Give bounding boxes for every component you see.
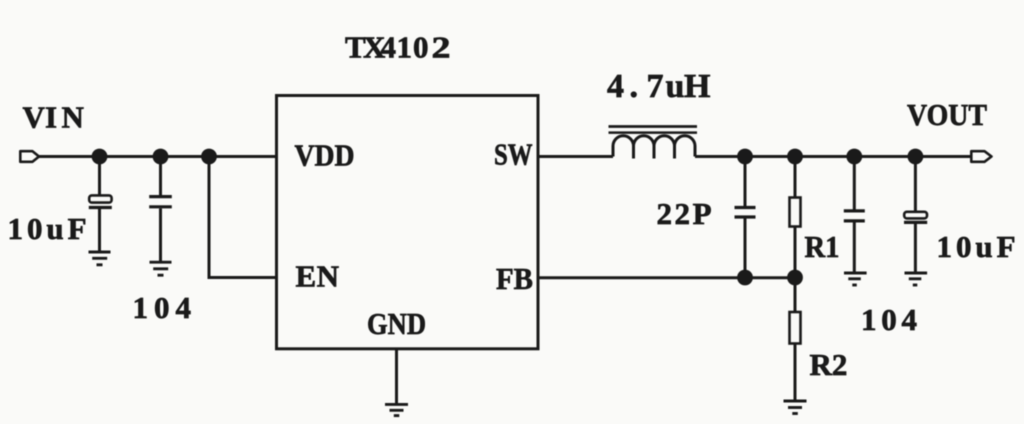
svg-text:VOUT: VOUT [907,97,987,132]
svg-text:104: 104 [133,290,192,325]
svg-text:EN: EN [296,259,340,294]
svg-text:VDD: VDD [295,138,355,173]
svg-text:FB: FB [496,261,533,296]
svg-text:GND: GND [367,306,426,341]
svg-text:22P: 22P [657,196,712,231]
svg-text:10uF: 10uF [937,229,1016,264]
svg-text:R2: R2 [810,347,848,382]
svg-text:SW: SW [494,137,533,172]
svg-text:R1: R1 [805,229,840,264]
svg-text:104: 104 [861,302,917,337]
svg-text:TX4102: TX4102 [345,30,451,65]
svg-text:4.7uH: 4.7uH [607,68,710,105]
svg-text:VIN: VIN [23,100,84,135]
svg-text:10uF: 10uF [8,211,87,246]
